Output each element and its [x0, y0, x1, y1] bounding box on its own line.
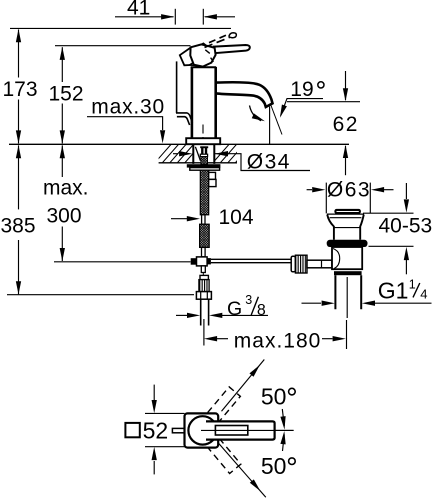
svg-text:3: 3	[245, 293, 252, 307]
svg-text:Ø63: Ø63	[327, 179, 371, 202]
svg-text:G1: G1	[378, 278, 409, 304]
svg-text:40-53: 40-53	[379, 214, 432, 237]
svg-text:Ø34: Ø34	[247, 151, 291, 174]
svg-text:max.: max.	[43, 176, 89, 199]
svg-text:41: 41	[127, 0, 150, 20]
svg-text:1: 1	[409, 278, 416, 292]
svg-text:300: 300	[47, 204, 82, 227]
svg-text:152: 152	[49, 83, 84, 106]
svg-text:19: 19	[290, 78, 313, 101]
svg-text:max.180: max.180	[234, 329, 322, 352]
svg-text:8: 8	[257, 302, 266, 319]
svg-text:G: G	[227, 298, 242, 320]
svg-text:385: 385	[1, 215, 36, 238]
svg-text:104: 104	[219, 206, 254, 229]
svg-text:52: 52	[143, 417, 169, 443]
svg-text:50: 50	[261, 383, 287, 409]
svg-text:4: 4	[420, 286, 427, 301]
svg-text:50: 50	[261, 453, 287, 479]
svg-text:max.30: max.30	[91, 96, 165, 119]
svg-text:62: 62	[333, 113, 359, 136]
svg-text:173: 173	[3, 78, 38, 101]
